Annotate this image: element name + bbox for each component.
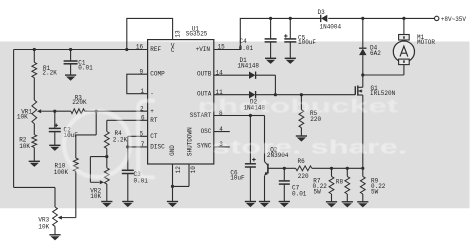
- wire to VR3: [14, 186, 55, 188]
- svg-text:1: 1: [141, 88, 145, 95]
- node VR1 wiper junction: [53, 110, 56, 113]
- svg-text:C: C: [171, 47, 175, 54]
- wire SYNC pin3 stub: [214, 146, 230, 148]
- C5 polarity +: [284, 35, 288, 37]
- wire to Q2 collector: [250, 115, 264, 117]
- node R7 junction: [330, 167, 333, 170]
- svg-text:10K: 10K: [19, 143, 30, 150]
- resistor R10: [73, 158, 78, 171]
- wire to R10: [76, 134, 96, 136]
- node GND junction: [171, 185, 174, 188]
- svg-text:5W: 5W: [371, 189, 379, 196]
- capacitor C2: [49, 127, 61, 129]
- wire VR2 wiper loop left: [89, 157, 91, 183]
- ground C2: [49, 144, 60, 146]
- node D4 junction: [361, 17, 364, 20]
- wire C2 top stem: [54, 111, 56, 128]
- svg-text:2.2K: 2.2K: [113, 137, 128, 144]
- node soft-start junction: [249, 114, 252, 117]
- wire R7 top stem: [331, 168, 333, 176]
- wire R5 top stem: [300, 95, 302, 110]
- wire R9 bottom stem: [362, 194, 364, 202]
- svg-text:2.2K: 2.2K: [42, 70, 57, 77]
- wire D1 to D2 join: [274, 75, 276, 95]
- wire source link: [358, 94, 363, 96]
- transistor Q2 2N3904: [267, 164, 269, 174]
- svg-text:9: 9: [140, 68, 144, 75]
- wire R10 bottom to VR3 wiper: [75, 171, 77, 217]
- svg-text:DISC: DISC: [150, 144, 165, 151]
- svg-text:D3: D3: [318, 9, 326, 16]
- svg-text:12: 12: [175, 166, 182, 174]
- svg-text:0.01: 0.01: [78, 64, 93, 71]
- ground C1: [65, 74, 76, 76]
- svg-text:REF: REF: [150, 46, 161, 53]
- wire C5 top stem: [289, 18, 291, 39]
- svg-text:R8: R8: [336, 179, 344, 186]
- potentiometer VR1 body: [32, 100, 37, 124]
- node VC loop junction: [125, 48, 128, 51]
- wire C4 bottom stem: [270, 42, 272, 58]
- resistor R3: [71, 109, 85, 114]
- wire R1 top stem: [33, 50, 35, 63]
- svg-text:SG3525: SG3525: [186, 31, 208, 38]
- node R1 top junction: [33, 48, 36, 51]
- capacitor C1: [64, 60, 78, 62]
- svg-text:MOTOR: MOTOR: [417, 39, 435, 46]
- wire sense bus: [312, 167, 363, 169]
- capacitor C5: [284, 38, 296, 40]
- resistor R2: [32, 135, 37, 148]
- svg-text:10: 10: [190, 166, 197, 174]
- wire OUTB pin14: [214, 74, 249, 76]
- node R5 junction: [300, 93, 303, 96]
- svg-text:+: +: [150, 108, 154, 115]
- svg-text:10K: 10K: [90, 193, 101, 200]
- G1 body arrow: [359, 90, 363, 92]
- svg-text:5W: 5W: [314, 189, 322, 196]
- wire drain vertical: [362, 75, 364, 87]
- node drain junction: [361, 73, 364, 76]
- resistor R8: [345, 176, 350, 194]
- wire C4 top stem: [270, 18, 272, 39]
- wire Q2 base: [268, 167, 296, 169]
- C6 polarity +: [252, 159, 256, 161]
- wire left vertical: [13, 50, 15, 188]
- motor armature A: [400, 46, 408, 56]
- wire Q2 collector diagonal: [265, 162, 268, 166]
- supply terminal +8V~35V: [435, 16, 439, 20]
- wire R9 top stem: [362, 168, 364, 176]
- svg-text:C4: C4: [240, 38, 248, 45]
- capacitor C3: [122, 169, 134, 171]
- wire VR1-R2: [33, 124, 35, 135]
- wire REF to VC pin13 loop: [127, 18, 173, 49]
- ground C6: [245, 201, 256, 203]
- wire VR3 bottom stem: [54, 226, 56, 235]
- resistor R6: [296, 166, 312, 171]
- wire RT pin6: [107, 119, 148, 121]
- svg-text:220K: 220K: [72, 99, 87, 106]
- node R8 junction: [346, 167, 349, 170]
- diode D4: [359, 47, 366, 49]
- grey schematic background band: [0, 42, 470, 209]
- wire pin10 down: [188, 164, 190, 186]
- wire C3 top stem: [127, 147, 129, 170]
- node C1 top junction: [69, 48, 72, 51]
- wire R10 top stem: [75, 135, 77, 158]
- svg-text:SHUTDOWN: SHUTDOWN: [186, 127, 193, 156]
- svg-text:OUTB: OUTB: [197, 71, 212, 78]
- wire C7 bottom stem: [283, 184, 285, 201]
- svg-text:R6: R6: [298, 158, 306, 165]
- wire D4 top stem: [362, 18, 364, 48]
- wire pin12 GND down: [172, 164, 174, 186]
- wire motor bottom stem: [403, 65, 405, 75]
- svg-text:7: 7: [141, 141, 145, 148]
- svg-text:2: 2: [140, 106, 144, 113]
- svg-text:1N4004: 1N4004: [320, 23, 342, 30]
- wire pin10 to pin12: [173, 185, 190, 187]
- potentiometer VR2 body: [104, 168, 109, 184]
- wire VR3 top stem: [54, 187, 56, 207]
- wire Q2 emitter down: [264, 176, 266, 202]
- svg-text:10K: 10K: [17, 114, 28, 121]
- node C5 junction: [289, 17, 292, 20]
- svg-text:0.01: 0.01: [292, 190, 307, 197]
- svg-text:-: -: [150, 90, 154, 97]
- wire R4 top stem: [106, 120, 108, 131]
- svg-text:10uF: 10uF: [230, 174, 245, 181]
- svg-text:0.01: 0.01: [239, 45, 254, 52]
- C2 polarity +: [54, 124, 58, 126]
- ground VR2: [101, 201, 112, 203]
- svg-text:6: 6: [141, 115, 145, 122]
- wire R5 bottom stem: [300, 128, 302, 136]
- wire CT down: [127, 136, 129, 147]
- ground R5: [296, 135, 307, 137]
- wire D2 cathode: [256, 94, 275, 96]
- resistor R7: [329, 176, 334, 194]
- svg-text:OSC: OSC: [201, 128, 212, 135]
- wire DISC pin7: [128, 146, 148, 148]
- resistor R1: [32, 62, 37, 77]
- wire COMP pin9 to pin1 loop: [127, 74, 148, 94]
- motor M1: [393, 41, 414, 62]
- wire D1 cathode: [256, 74, 275, 76]
- wire D4 bottom stem: [362, 55, 364, 75]
- svg-text:1N4148: 1N4148: [237, 62, 259, 69]
- wire to R3: [55, 110, 71, 112]
- wire R1-VR1: [33, 78, 35, 100]
- wire R8 bottom stem: [346, 194, 348, 202]
- wire OSC pin4 stub: [214, 131, 230, 133]
- node R9 junction: [361, 167, 364, 170]
- node CT/DISC junction: [126, 145, 129, 148]
- potentiometer VR3 body: [53, 207, 58, 226]
- diode D2: [249, 91, 255, 98]
- wire motor top stem: [403, 18, 405, 34]
- wire SSTART pin8: [214, 115, 251, 117]
- svg-text:SYNC: SYNC: [197, 143, 212, 150]
- svg-text:RT: RT: [150, 117, 158, 124]
- svg-text:220: 220: [298, 173, 309, 180]
- wire top bus right: [328, 17, 434, 19]
- wire VR2 top stem: [106, 157, 108, 168]
- node C7 junction: [283, 167, 286, 170]
- wire C5 bottom stem: [289, 42, 291, 58]
- wire OUTA pin11: [214, 94, 249, 96]
- wire R2 bottom stem: [33, 148, 35, 162]
- svg-text:store. share.: store. share.: [212, 137, 407, 159]
- wire C1 bottom stem: [70, 64, 72, 75]
- wire R8 top stem: [346, 168, 348, 176]
- wire R4 bottom stem: [106, 149, 108, 157]
- node motor junction: [402, 17, 405, 20]
- svg-text:+8V~35V: +8V~35V: [441, 16, 467, 23]
- ground R7: [326, 201, 337, 203]
- wire pin2 branch down: [95, 111, 97, 135]
- wire gate drive line: [275, 94, 355, 96]
- VR3 wiper arrow: [62, 217, 76, 219]
- op-amp U1 SG3525 IC body: [148, 40, 214, 164]
- ground C5: [285, 57, 296, 59]
- diode D1: [249, 72, 255, 79]
- wire CT pin5: [128, 135, 148, 137]
- svg-text:13: 13: [175, 30, 182, 38]
- ground VR3: [49, 234, 60, 236]
- svg-text:100uF: 100uF: [298, 39, 316, 46]
- capacitor C4: [265, 38, 277, 40]
- wire C6 top stem: [249, 116, 251, 164]
- photobucket watermark bracket: [138, 101, 155, 178]
- svg-text:10K: 10K: [38, 223, 49, 230]
- capacitor C7: [279, 180, 290, 182]
- node R4/VR2 junction: [105, 155, 108, 158]
- ground R8: [342, 201, 353, 203]
- Q2 emitter: [265, 172, 268, 175]
- wire C2 bottom stem: [54, 132, 56, 146]
- wire to ground: [172, 186, 174, 201]
- svg-text:GND: GND: [169, 145, 176, 156]
- ground C7: [279, 201, 290, 203]
- wire R7 bottom stem: [331, 194, 333, 202]
- svg-text:photobucket: photobucket: [198, 96, 399, 118]
- resistor R5: [299, 110, 304, 128]
- svg-text:+VIN: +VIN: [196, 46, 211, 53]
- VR2 wiper arrow: [90, 181, 99, 183]
- resistor R4: [104, 132, 109, 149]
- diode D3: [320, 15, 322, 22]
- wire C1 top stem: [70, 50, 72, 62]
- ground Q2: [259, 201, 270, 203]
- svg-text:100K: 100K: [54, 169, 69, 176]
- node C4 junction: [269, 17, 272, 20]
- capacitor C6: [245, 163, 256, 165]
- photobucket watermark ring: [64, 111, 130, 177]
- ground C3: [122, 201, 133, 203]
- ground IC: [167, 201, 178, 203]
- svg-text:6A2: 6A2: [370, 50, 381, 57]
- wire +VIN pin15 to top bus: [214, 18, 321, 49]
- svg-text:COMP: COMP: [150, 71, 165, 78]
- wire motor to drain: [363, 74, 404, 76]
- wire Q2 collector vertical: [264, 116, 266, 162]
- wire C3 bottom stem: [127, 174, 129, 202]
- wire source down to sense bus: [362, 95, 364, 168]
- wire VR2 bottom stem: [106, 184, 108, 202]
- wire REF bus pin16: [14, 49, 148, 51]
- node pin2 branch junction: [95, 110, 98, 113]
- ground R2: [29, 160, 40, 162]
- wire R3 to pin2: [85, 110, 148, 112]
- resistor R9: [360, 176, 365, 194]
- wire C6 bottom stem: [249, 167, 251, 202]
- node diode output junction: [274, 93, 277, 96]
- wire VR2 wiper loop top: [90, 156, 106, 158]
- transistor G1 IRL520N MOSFET: [354, 86, 356, 95]
- VR1 wiper arrow: [41, 110, 55, 112]
- ground R9: [357, 201, 368, 203]
- wire C7 top stem: [283, 168, 285, 181]
- svg-text:CT: CT: [150, 133, 158, 140]
- wire drain link: [358, 86, 363, 88]
- svg-text:16: 16: [136, 43, 144, 50]
- ground C4: [265, 57, 276, 59]
